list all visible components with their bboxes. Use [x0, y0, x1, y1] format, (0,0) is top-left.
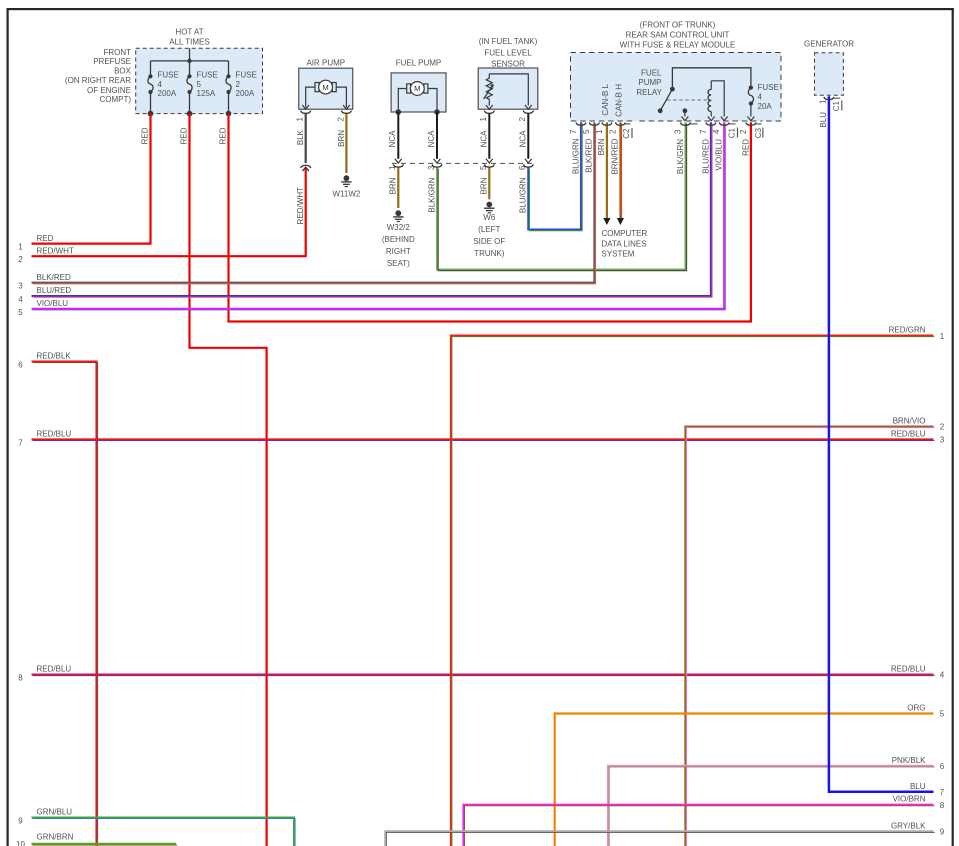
svg-text:(ON RIGHT REAR: (ON RIGHT REAR: [65, 76, 131, 85]
svg-text:BRN/RED: BRN/RED: [611, 138, 620, 174]
svg-text:5: 5: [197, 80, 202, 89]
svg-text:RED/BLK: RED/BLK: [37, 352, 72, 361]
generator pin 1 C1: [818, 97, 842, 128]
svg-text:RED: RED: [179, 127, 188, 144]
svg-text:RED/WHT: RED/WHT: [37, 246, 74, 255]
svg-text:BLU/GRN: BLU/GRN: [571, 138, 580, 174]
svg-text:W11W2: W11W2: [332, 190, 360, 199]
connector bracket tie C1 pin3: [690, 123, 698, 125]
svg-text:BLU/RED: BLU/RED: [37, 286, 72, 295]
svg-text:FUSE: FUSE: [236, 71, 257, 80]
svg-text:1: 1: [595, 129, 604, 134]
svg-text:BRN: BRN: [337, 130, 346, 147]
right wire 9 label GRY/BLK: [891, 821, 945, 836]
svg-text:2: 2: [940, 423, 945, 432]
inline connector pin 3: [427, 164, 442, 212]
svg-text:BRN: BRN: [480, 177, 489, 194]
variable resistor in sensor: [484, 74, 532, 109]
svg-text:RED: RED: [218, 127, 227, 144]
svg-text:RED: RED: [741, 139, 750, 156]
svg-text:PNK/BLK: PNK/BLK: [892, 756, 926, 765]
generator: [804, 39, 854, 95]
wire BLK/GRN fuel pump to SAM pin3: [437, 122, 685, 269]
SAM C2 pin 7 cup: [576, 123, 586, 126]
wire PNK/BLK right 6: [608, 766, 934, 846]
wire RED/WHT to wire 2: [32, 167, 306, 256]
svg-text:ALL TIMES: ALL TIMES: [169, 38, 209, 47]
svg-text:20A: 20A: [758, 102, 773, 111]
SAM pin BLU/GRN 7 (C2): [569, 123, 586, 174]
svg-text:DATA LINES: DATA LINES: [602, 239, 647, 248]
ground W32/2: [382, 210, 415, 268]
svg-text:RED/BLU: RED/BLU: [37, 430, 72, 439]
right wire 7 label BLU: [910, 782, 945, 797]
SAM pin VIO/BLU 4 (C1): [712, 123, 729, 171]
fuse F4 20A in SAM: [748, 83, 779, 121]
svg-text:4: 4: [758, 93, 763, 102]
right wire 3 label RED/BLU: [891, 429, 945, 444]
air pump pin 2: [336, 111, 351, 147]
svg-text:RED/BLU: RED/BLU: [37, 665, 72, 674]
wire BLU from generator to right 7: [829, 96, 934, 792]
inline connector pin 1: [388, 164, 403, 194]
sensor pin 2 cup: [523, 111, 533, 114]
svg-text:OF ENGINE: OF ENGINE: [87, 86, 131, 95]
SAM C1 pin 7 cup: [706, 123, 716, 126]
left wire 6 label RED/BLK: [18, 352, 71, 370]
svg-text:7: 7: [699, 129, 708, 134]
svg-text:W6: W6: [483, 213, 496, 222]
svg-text:HOT AT: HOT AT: [175, 28, 203, 37]
svg-text:RED/BLU: RED/BLU: [891, 429, 926, 438]
svg-text:CAN-B H: CAN-B H: [615, 84, 624, 117]
svg-text:1: 1: [940, 332, 945, 341]
SAM C3 pin 2 cup: [746, 123, 756, 126]
svg-text:C1: C1: [728, 127, 737, 138]
wire BRN/VIO right 2: [685, 427, 933, 846]
air pump pin 1: [296, 111, 311, 145]
svg-text:BLK/GRN: BLK/GRN: [427, 177, 436, 212]
svg-text:6: 6: [940, 762, 945, 771]
svg-text:BLU/RED: BLU/RED: [701, 139, 710, 174]
connector bracket tie generator C1: [833, 97, 840, 99]
svg-text:7: 7: [569, 129, 578, 134]
left wire 4 label BLU/RED: [18, 286, 71, 304]
svg-text:9: 9: [18, 817, 23, 826]
svg-text:9: 9: [940, 828, 945, 837]
prefuse bus wire: [151, 48, 229, 63]
svg-text:BRN: BRN: [389, 177, 398, 194]
svg-text:3: 3: [940, 436, 945, 445]
svg-text:GRN/BRN: GRN/BRN: [37, 832, 74, 841]
connector C3 label: [754, 127, 763, 138]
wire 6 RED/BLK down: [32, 362, 97, 846]
svg-text:FRONT: FRONT: [103, 48, 131, 57]
svg-text:3: 3: [673, 129, 682, 134]
wire BRN/RED CAN-B H to data lines: [617, 122, 624, 225]
svg-text:RED/GRN: RED/GRN: [889, 326, 926, 335]
left wire 8 label RED/BLU: [18, 665, 71, 683]
ground W11W2: [332, 175, 360, 198]
inline pin 6 cup: [523, 164, 533, 167]
svg-text:GRY/BLK: GRY/BLK: [891, 821, 926, 830]
hot at all times label: [169, 28, 209, 47]
wire 7 RED/BLU across: [32, 438, 934, 440]
wire BLU/GRN sensor to SAM pin7: [528, 122, 581, 229]
svg-text:BLK/GRN: BLK/GRN: [676, 139, 685, 174]
svg-text:FUSE: FUSE: [158, 71, 179, 80]
svg-text:NCA: NCA: [480, 130, 489, 148]
svg-text:10: 10: [16, 840, 25, 846]
SAM C2 pin 1 cup: [602, 123, 612, 126]
connector bracket tie C2: [625, 123, 631, 125]
wire GRY/BLK right 9: [385, 831, 933, 846]
left wire 1 label RED: [18, 234, 53, 252]
wire NCA fuel pump left: [388, 112, 402, 163]
SAM pin BLK/GRN 3 (C1): [673, 123, 690, 175]
wire RED fuse F2 to SAM fuse: [229, 114, 751, 322]
inline connector on air pump wire: [301, 165, 311, 171]
svg-text:VIO/BLU: VIO/BLU: [715, 139, 724, 171]
wire VIO/BRN right 8: [463, 805, 933, 846]
svg-text:BLU/GRN: BLU/GRN: [519, 177, 528, 213]
inline connector dashed line: [392, 162, 536, 164]
computer data lines system label: [602, 229, 648, 258]
svg-text:4: 4: [158, 80, 163, 89]
inline connector pin 5: [479, 164, 494, 194]
wire BRN sensor to ground: [488, 168, 490, 200]
svg-text:(LEFT: (LEFT: [478, 225, 500, 234]
svg-text:SEAT): SEAT): [387, 259, 410, 268]
svg-text:TRUNK): TRUNK): [474, 249, 505, 258]
inline connector on air pump wire (overlay): [301, 165, 311, 171]
connector bracket tie C1 pin4: [729, 123, 736, 125]
fuel level sensor: [478, 37, 538, 109]
wire 1 RED from fuse F4: [32, 114, 151, 244]
svg-text:NCA: NCA: [427, 130, 436, 148]
svg-text:PUMP: PUMP: [638, 78, 661, 87]
SAM pin BLU/RED 7 (C1): [699, 123, 716, 174]
wire 5 VIO/BLU to SAM pin4 C1: [32, 122, 725, 308]
right wire 6 label PNK/BLK: [892, 756, 945, 771]
right wire 8 label VIO/BRN: [893, 795, 945, 810]
wire 10 GRN/BRN: [32, 843, 177, 845]
svg-text:200A: 200A: [158, 89, 177, 98]
air pump pin 2 cup: [341, 111, 351, 114]
svg-text:5: 5: [18, 308, 23, 317]
wire RED/GRN right 1: [451, 336, 934, 846]
svg-text:GENERATOR: GENERATOR: [804, 39, 854, 48]
svg-text:200A: 200A: [236, 89, 255, 98]
rear SAM control unit: [571, 21, 782, 122]
svg-text:7: 7: [940, 788, 945, 797]
svg-text:SIDE OF: SIDE OF: [473, 237, 505, 246]
left wire 5 label VIO/BLU: [18, 299, 68, 317]
svg-text:2: 2: [18, 255, 23, 264]
connector bracket tie C3: [755, 123, 761, 125]
svg-text:FUSE: FUSE: [197, 71, 218, 80]
inline pin 1 cup: [393, 164, 403, 167]
svg-text:8: 8: [940, 801, 945, 810]
svg-text:BLK/RED: BLK/RED: [37, 273, 71, 282]
svg-text:C3: C3: [754, 127, 763, 138]
SAM C1 pin 4 cup: [719, 123, 729, 126]
right wire 4 label RED/BLU: [891, 665, 945, 680]
right wire 1 label RED/GRN: [889, 326, 945, 341]
svg-text:W32/2: W32/2: [387, 223, 411, 232]
wire BRN from air pump to ground: [345, 113, 347, 173]
svg-text:BRN: BRN: [597, 138, 606, 155]
svg-text:COMPT): COMPT): [99, 95, 131, 104]
svg-text:VIO/BLU: VIO/BLU: [37, 299, 69, 308]
sensor pin 1: [479, 111, 494, 148]
right wire 5 label ORG: [907, 704, 945, 719]
wire BRN CAN-B L to data lines: [603, 122, 610, 225]
svg-text:6: 6: [18, 361, 23, 370]
wire BRN fuel pump to ground: [397, 168, 399, 209]
svg-text:1: 1: [18, 243, 23, 252]
svg-text:4: 4: [940, 671, 945, 680]
svg-text:AIR PUMP: AIR PUMP: [306, 58, 345, 67]
wire BLK from air pump: [305, 113, 307, 163]
svg-text:(BEHIND: (BEHIND: [382, 235, 415, 244]
svg-text:C2: C2: [622, 128, 631, 139]
svg-text:GRN/BLU: GRN/BLU: [37, 808, 73, 817]
SAM pin BRN 1 CAN-B L (C2): [595, 83, 612, 155]
air pump pin 1 cup: [301, 111, 311, 114]
svg-text:8: 8: [18, 674, 23, 683]
wire 4 BLU/RED to SAM pin7 C1: [32, 122, 711, 296]
fuel pump: [391, 58, 446, 114]
svg-text:125A: 125A: [197, 89, 216, 98]
svg-text:PREFUSE: PREFUSE: [93, 57, 131, 66]
svg-text:BLU: BLU: [910, 782, 926, 791]
svg-text:(FRONT OF TRUNK): (FRONT OF TRUNK): [640, 21, 716, 30]
svg-text:C1: C1: [832, 100, 841, 111]
svg-text:NCA: NCA: [388, 130, 397, 148]
fuse F2 200A: [226, 61, 257, 116]
SAM pin BRN/RED 2 CAN-B H (C2): [608, 84, 625, 175]
svg-text:(IN FUEL TANK): (IN FUEL TANK): [479, 37, 538, 46]
svg-text:COMPUTER: COMPUTER: [602, 229, 648, 238]
svg-text:RED: RED: [37, 234, 54, 243]
left wire 2 label RED/WHT: [18, 246, 74, 264]
front prefuse box: [65, 48, 263, 114]
air pump: [299, 58, 353, 109]
fuse F4 200A: [148, 61, 179, 116]
svg-text:FUEL PUMP: FUEL PUMP: [396, 58, 442, 67]
svg-text:2: 2: [518, 116, 527, 121]
wire NCA fuel pump right: [427, 112, 441, 163]
svg-text:5: 5: [479, 165, 488, 170]
svg-text:RED/BLU: RED/BLU: [891, 665, 926, 674]
svg-text:3: 3: [427, 165, 436, 170]
svg-text:REAR SAM CONTROL UNIT: REAR SAM CONTROL UNIT: [626, 31, 730, 40]
svg-text:4: 4: [18, 295, 23, 304]
svg-text:2: 2: [336, 116, 345, 121]
svg-text:SYSTEM: SYSTEM: [602, 249, 635, 258]
svg-text:ORG: ORG: [907, 704, 925, 713]
svg-text:2: 2: [608, 129, 617, 134]
SAM C1 pin 3 cup: [680, 123, 690, 126]
svg-text:CAN-B L: CAN-B L: [601, 83, 610, 115]
wire ORG right 5: [555, 714, 934, 846]
connector C2 label: [622, 128, 632, 139]
inline connector pin 6: [518, 164, 533, 213]
svg-text:WITH FUSE & RELAY MODULE: WITH FUSE & RELAY MODULE: [620, 41, 736, 50]
svg-text:M: M: [322, 83, 328, 92]
sensor pin 1 cup: [484, 111, 494, 114]
svg-text:RELAY: RELAY: [636, 88, 662, 97]
svg-text:1: 1: [479, 116, 488, 121]
svg-text:BLK/RED: BLK/RED: [585, 138, 594, 172]
svg-text:5: 5: [582, 129, 591, 134]
svg-text:4: 4: [712, 129, 721, 134]
wire 8 RED/BLU across: [32, 673, 934, 675]
SAM pin BLK/RED 5 (C2): [582, 123, 599, 173]
svg-text:3: 3: [18, 282, 23, 291]
sensor pin 2: [518, 111, 533, 148]
SAM C2 pin 5 cup: [589, 123, 599, 126]
svg-text:FUEL: FUEL: [641, 69, 662, 78]
svg-text:BOX: BOX: [114, 67, 132, 76]
wire NCA sensor pin2: [525, 113, 532, 163]
svg-text:RED/WHT: RED/WHT: [296, 187, 305, 224]
inline pin 5 cup: [484, 164, 494, 167]
fuel pump relay: [636, 68, 751, 121]
svg-text:2: 2: [739, 129, 748, 134]
svg-text:BLU: BLU: [819, 112, 828, 128]
connector C1 label: [728, 127, 738, 138]
svg-text:FUSE: FUSE: [758, 83, 779, 92]
svg-text:BLK: BLK: [296, 129, 305, 145]
svg-text:RIGHT: RIGHT: [386, 247, 411, 256]
wire 9 GRN/BLU: [32, 818, 295, 846]
svg-text:NCA: NCA: [519, 130, 528, 148]
fuse F5 125A: [187, 61, 218, 116]
SAM pin RED 2 (C3): [739, 123, 756, 156]
svg-text:BRN/VIO: BRN/VIO: [893, 416, 926, 425]
right wire 2 label BRN/VIO: [893, 416, 945, 431]
svg-text:5: 5: [940, 710, 945, 719]
generator pin 1 cup: [824, 97, 834, 100]
svg-text:7: 7: [18, 438, 23, 447]
left wire 3 label BLK/RED: [18, 273, 71, 291]
SAM C2 pin 2 cup: [615, 123, 625, 126]
svg-text:SENSOR: SENSOR: [491, 60, 525, 69]
left wire 10 label GRN/BRN: [16, 832, 74, 846]
svg-text:1: 1: [388, 165, 397, 170]
wire NCA sensor pin1: [486, 113, 493, 163]
svg-text:6: 6: [518, 165, 527, 170]
svg-text:RED: RED: [140, 127, 149, 144]
svg-text:M: M: [414, 84, 420, 93]
ground W6: [473, 202, 505, 258]
wire RED fuse F5 down: [190, 114, 267, 846]
left wire 9 label GRN/BLU: [18, 808, 72, 826]
svg-text:FUEL LEVEL: FUEL LEVEL: [484, 49, 532, 58]
inline pin 3 cup: [432, 164, 442, 167]
left wire 7 label RED/BLU: [18, 430, 71, 448]
svg-text:2: 2: [236, 80, 241, 89]
svg-text:VIO/BRN: VIO/BRN: [893, 795, 926, 804]
svg-text:1: 1: [296, 116, 305, 121]
wire 3 BLK/RED to SAM pin5: [32, 122, 595, 282]
